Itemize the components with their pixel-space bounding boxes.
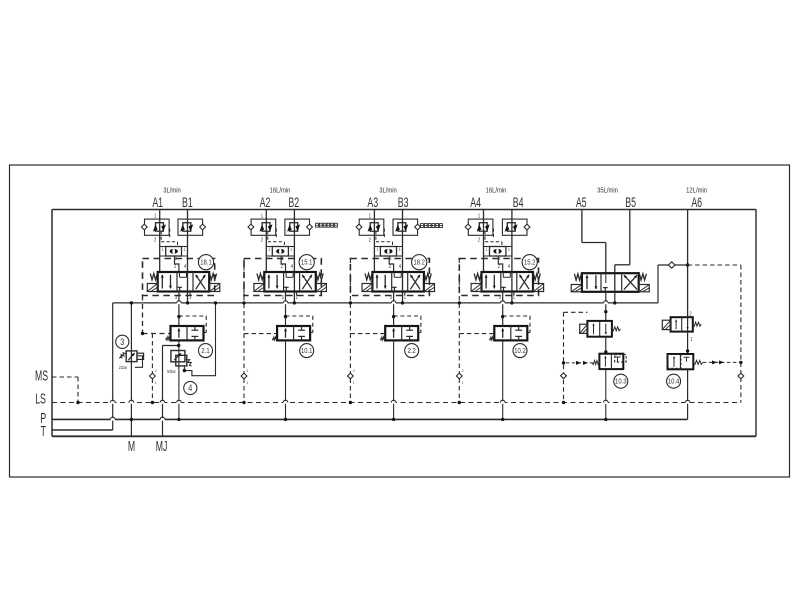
- svg-text:B3: B3: [398, 194, 409, 211]
- svg-text:50bar: 50bar: [167, 370, 176, 374]
- svg-text:LS: LS: [35, 390, 46, 407]
- svg-text:2.2: 2.2: [408, 348, 417, 356]
- svg-text:A3: A3: [367, 194, 378, 211]
- svg-text:MJ: MJ: [156, 438, 168, 455]
- svg-text:1: 1: [353, 380, 355, 384]
- svg-text:B1: B1: [182, 194, 193, 211]
- svg-text:10.1: 10.1: [301, 348, 313, 356]
- svg-text:1: 1: [462, 380, 464, 384]
- svg-text:2: 2: [462, 368, 464, 372]
- svg-text:18.1: 18.1: [200, 259, 212, 267]
- svg-text:T: T: [41, 423, 47, 440]
- svg-text:4: 4: [188, 383, 192, 393]
- svg-text:M: M: [128, 438, 135, 455]
- svg-text:16L/min: 16L/min: [486, 187, 507, 195]
- svg-text:B4: B4: [513, 194, 524, 211]
- svg-text:10.4: 10.4: [668, 378, 680, 386]
- svg-text:3L/min: 3L/min: [163, 187, 181, 195]
- svg-text:1: 1: [155, 380, 157, 384]
- svg-text:B2: B2: [288, 194, 299, 211]
- svg-text:3: 3: [120, 337, 124, 347]
- svg-text:A2: A2: [260, 194, 271, 211]
- svg-text:2: 2: [353, 368, 355, 372]
- svg-text:12L/min: 12L/min: [686, 187, 707, 195]
- svg-text:A6: A6: [691, 194, 702, 211]
- svg-text:1: 1: [247, 380, 249, 384]
- svg-text:2: 2: [247, 368, 249, 372]
- svg-text:15.2: 15.2: [524, 259, 536, 267]
- svg-text:10.2: 10.2: [514, 348, 526, 356]
- svg-text:A4: A4: [470, 194, 481, 211]
- svg-text:16L/min: 16L/min: [270, 187, 291, 195]
- svg-text:A1: A1: [152, 194, 163, 211]
- svg-text:2: 2: [155, 368, 157, 372]
- svg-text:21bar: 21bar: [119, 365, 128, 369]
- svg-text:18.2: 18.2: [413, 259, 425, 267]
- svg-text:A5: A5: [576, 194, 587, 211]
- svg-text:15.1: 15.1: [301, 259, 313, 267]
- svg-text:2.1: 2.1: [201, 348, 210, 356]
- svg-text:3L/min: 3L/min: [379, 187, 397, 195]
- svg-text:35L/min: 35L/min: [597, 187, 618, 195]
- svg-text:MS: MS: [35, 367, 48, 384]
- svg-text:10.3: 10.3: [615, 378, 627, 386]
- svg-text:B5: B5: [625, 194, 636, 211]
